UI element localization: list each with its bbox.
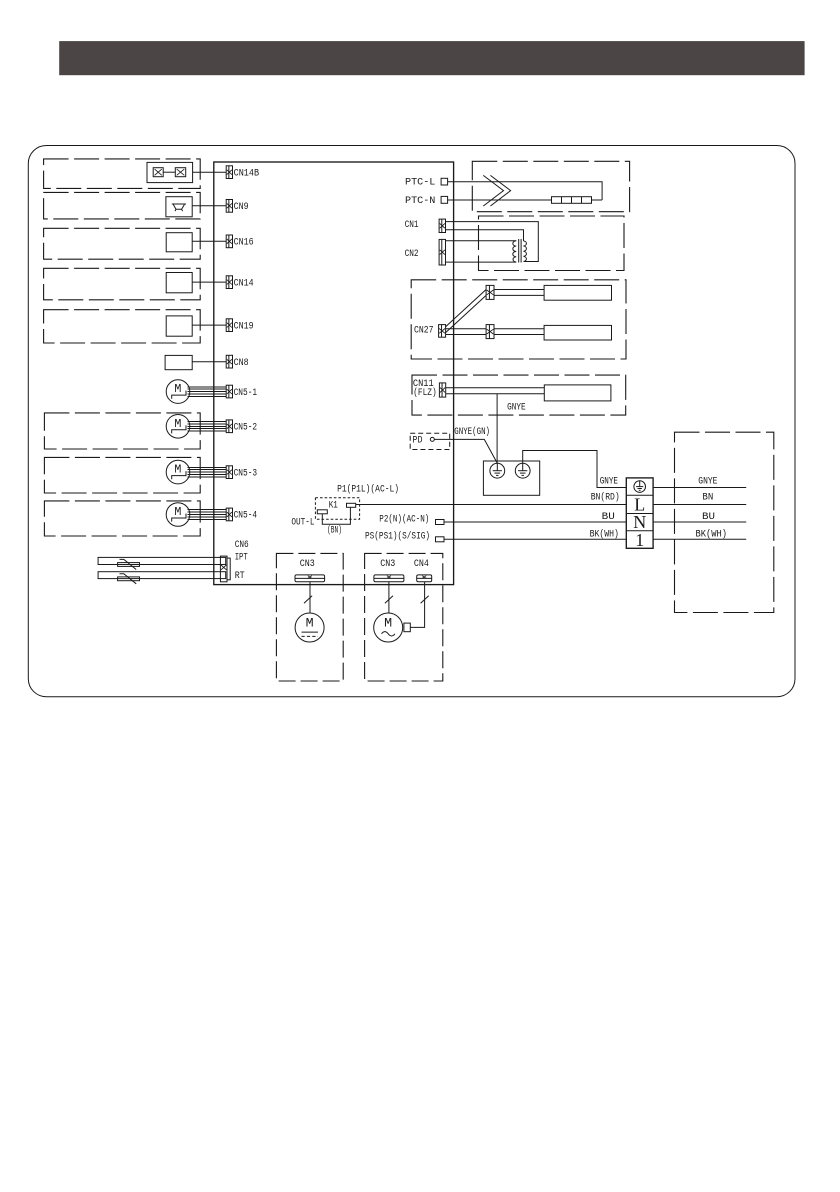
wire bundle motor 2 to CN5-2 [188, 422, 227, 432]
wire CN2 pin1 [446, 240, 517, 242]
earth plate box [483, 461, 539, 495]
wire earth2 to terminal GNYE [523, 451, 627, 488]
wire bundle motor 4 to CN5-4 [188, 510, 227, 520]
connector CN16 [226, 235, 232, 248]
svg-text:CN3: CN3 [380, 558, 395, 570]
svg-text:BK(WH): BK(WH) [696, 529, 728, 541]
wire P2 to terminal N [444, 521, 626, 523]
wire to CN16 [192, 240, 226, 242]
dashed enclosure (motor CN5-4) [44, 501, 200, 536]
relay K1 linkage wire [322, 507, 350, 524]
dashed enclosure FLZ [412, 375, 626, 415]
dashed enclosure row 2 (buzzer) [44, 192, 201, 219]
svg-text:PTC-N: PTC-N [405, 195, 435, 207]
connector CN5-4 [226, 508, 232, 521]
connector CN6 [220, 556, 230, 582]
outer rounded frame [28, 146, 795, 697]
svg-text:GNYE: GNYE [507, 402, 526, 414]
wire CN3 to motor2 [388, 582, 390, 614]
connector CN5-2 [226, 420, 232, 433]
dashed enclosure PTC heater [472, 161, 629, 211]
sensor box CN16 [166, 233, 192, 252]
sensor box CN14 [166, 273, 192, 293]
inline connector block 2 [486, 325, 494, 339]
DC fan motor M [295, 613, 324, 642]
wire CN11 pin1 [446, 387, 545, 389]
FLZ module [544, 385, 611, 401]
transformer T1 secondary coil [524, 241, 527, 262]
terminal P2 [436, 520, 445, 525]
heater chevron inner [490, 175, 510, 206]
wire to CN19 [192, 324, 226, 326]
wire CN27 straight 1 [446, 328, 487, 330]
terminal divider 1 [626, 494, 653, 496]
terminal divider 3 [626, 530, 653, 532]
display module 1 [544, 285, 611, 300]
svg-text:CN4: CN4 [414, 558, 429, 570]
wire bundle motor 1 to CN5-1 [188, 387, 227, 397]
svg-text:CN27: CN27 [414, 324, 434, 336]
wire GNYE to earth1 [496, 394, 498, 464]
svg-text:M: M [174, 463, 181, 477]
dashed enclosure display [411, 280, 626, 359]
svg-text:(FLZ): (FLZ) [413, 387, 437, 399]
dashed enclosure row 3 (CN16 sensor) [44, 228, 201, 259]
svg-text:BN(RD): BN(RD) [591, 492, 620, 504]
component box CN8 [165, 355, 192, 369]
wire sensor to CN14B [193, 171, 227, 173]
switch element X1 [153, 168, 163, 177]
stepper motor M2 [166, 415, 190, 439]
relay K1 contact B [347, 503, 356, 507]
dashed enclosure transformer [479, 216, 625, 271]
svg-text:CN2: CN2 [405, 248, 419, 260]
terminal PTC-N [441, 196, 448, 203]
AC fan motor M [374, 613, 403, 642]
connector CN1 [439, 219, 445, 232]
svg-text:OUT-L: OUT-L [291, 516, 314, 528]
wire GNYE out [653, 487, 746, 489]
svg-text:CN16: CN16 [234, 237, 254, 249]
connector CN14B [226, 166, 232, 179]
dashed enclosure power supply [675, 432, 774, 612]
connector CN5-1 [226, 385, 232, 398]
dashed enclosure (motor CN5-3) [44, 457, 200, 493]
dashed enclosure (motor CN5-2) [44, 413, 200, 449]
svg-text:GNYE(GN): GNYE(GN) [454, 426, 490, 438]
sensor box CN19 [166, 316, 192, 336]
dashed enclosure row 1 (CN14B sensor) [44, 159, 201, 189]
connector CN4 [417, 575, 432, 582]
title header bar [59, 41, 804, 75]
wire PD to earth1 [434, 439, 497, 463]
svg-text:CN6: CN6 [235, 539, 249, 551]
wire buzzer to CN9 [192, 205, 226, 207]
thermistor IPT slash [120, 559, 137, 569]
connector CN9 [226, 200, 232, 213]
svg-text:CN8: CN8 [234, 357, 249, 369]
svg-text:BU: BU [602, 511, 615, 523]
sensor assembly box (CN14B) [147, 162, 193, 182]
earth symbol E2 [515, 463, 530, 478]
wire block2 to display 2 [494, 328, 544, 330]
svg-text:1: 1 [635, 530, 644, 550]
transformer T1 core [518, 239, 520, 263]
terminal earth symbol [634, 481, 646, 493]
wire CN1 pin1 [446, 222, 539, 262]
transformer T1 primary coil [513, 241, 516, 262]
wire to CN14 [192, 281, 226, 283]
svg-text:BU: BU [702, 511, 715, 523]
relay K1 dotted box [315, 498, 359, 520]
dashed enclosure row 4 (CN14 sensor) [44, 268, 201, 300]
svg-text:CN14B: CN14B [234, 167, 260, 179]
svg-text:BK(WH): BK(WH) [590, 529, 619, 541]
connector CN14 [226, 276, 232, 289]
cable slash CN4 wire [421, 596, 429, 604]
svg-text:M: M [174, 505, 181, 519]
buzzer symbol [172, 204, 186, 211]
terminal PTC-L [441, 178, 448, 185]
svg-text:CN5-3: CN5-3 [234, 467, 258, 479]
PD pin circle [430, 437, 434, 441]
wire CN27 diagonal 1 [446, 290, 487, 327]
svg-text:K1: K1 [329, 500, 338, 512]
thermistor IPT cable [98, 557, 226, 564]
wire block1 to display 1 [494, 289, 544, 291]
wire to CN8 [192, 361, 226, 363]
svg-text:M: M [306, 616, 314, 631]
wire CN1 pin2 [446, 230, 524, 241]
wire CN11 pin2 [446, 393, 545, 395]
svg-text:CN5-2: CN5-2 [234, 422, 258, 434]
earth symbol E1 [490, 463, 505, 478]
wire PTC-N [448, 199, 552, 201]
thermistor RT slash [120, 574, 137, 584]
svg-text:P1(P1L)(AC-L): P1(P1L)(AC-L) [337, 483, 399, 495]
svg-text:PTC-L: PTC-L [405, 176, 435, 188]
svg-text:CN19: CN19 [234, 320, 254, 332]
wire bundle motor 3 to CN5-3 [188, 467, 227, 477]
wire CN27 diagonal 2 [446, 295, 487, 332]
connector CN5-3 [226, 466, 232, 479]
svg-text:M: M [384, 616, 392, 631]
connector CN3 motor2 [374, 575, 404, 582]
wire P1 to terminal L [356, 504, 627, 506]
thermistor IPT body [118, 563, 140, 567]
stepper motor M1 [166, 380, 190, 404]
svg-text:PD: PD [412, 435, 422, 447]
thermistor RT cable [98, 572, 226, 579]
svg-text:BN: BN [702, 492, 713, 504]
connector CN27 [439, 325, 446, 338]
motor capacitor box [404, 623, 410, 632]
wire PS to terminal 1 [444, 538, 626, 540]
switch element X2 [175, 168, 185, 177]
display module 2 [544, 325, 611, 340]
cable slash motor1 [304, 596, 312, 604]
connector CN19 [226, 319, 232, 332]
dashed enclosure fan motor 1 [276, 553, 343, 681]
PCB board outline [214, 162, 454, 585]
wire CN2 pin2 [446, 261, 517, 263]
stepper motor M3 [166, 460, 190, 484]
svg-text:M: M [174, 417, 181, 431]
wire CN27 straight 2 [446, 334, 487, 336]
cable slash motor2 main [385, 596, 393, 604]
wire PTC-L [448, 182, 602, 200]
svg-text:GNYE: GNYE [698, 475, 717, 487]
heater chevron outer [483, 175, 503, 206]
terminal PS [436, 537, 445, 542]
wire BU out [653, 521, 746, 523]
svg-text:CN5-4: CN5-4 [234, 510, 258, 522]
svg-text:(BN): (BN) [327, 525, 342, 537]
dashed enclosure row 5 (CN19 sensor) [44, 310, 201, 343]
wire X1-X2 [163, 171, 175, 173]
wire BN out [653, 504, 746, 506]
connector CN3 motor1 [295, 575, 325, 582]
svg-text:P2(N)(AC-N): P2(N)(AC-N) [379, 513, 429, 525]
buzzer box [166, 197, 192, 217]
svg-text:CN1: CN1 [405, 219, 419, 231]
inline connector block 1 [486, 285, 494, 299]
svg-text:CN3: CN3 [300, 558, 315, 570]
wire CN4 to capacitor [410, 582, 424, 628]
terminal divider 2 [626, 513, 653, 515]
stepper motor M4 [166, 503, 190, 527]
svg-text:GNYE: GNYE [600, 475, 618, 487]
thermistor RT body [118, 577, 140, 581]
dashed enclosure PD [410, 433, 450, 449]
wire BK out [653, 538, 746, 540]
svg-text:CN9: CN9 [234, 201, 249, 213]
svg-text:IPT: IPT [235, 552, 248, 564]
connector CN2 [439, 239, 445, 265]
relay K1 contact A [317, 510, 327, 514]
svg-text:CN14: CN14 [234, 277, 254, 289]
svg-text:CN5-1: CN5-1 [234, 387, 258, 399]
terminal block body [626, 478, 653, 548]
heater element segments [552, 197, 603, 204]
wire CN3 to motor1 [309, 582, 311, 613]
svg-text:M: M [174, 382, 181, 396]
connector CN11 [439, 383, 445, 397]
svg-text:PS(PS1)(S/SIG): PS(PS1)(S/SIG) [365, 531, 430, 543]
svg-text:RT: RT [235, 570, 245, 582]
dashed enclosure fan motor 2 [365, 553, 443, 681]
connector CN8 [226, 355, 232, 368]
